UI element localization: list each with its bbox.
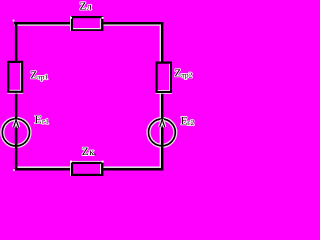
label Eg1 halo [35, 116, 49, 124]
label Eg1 [35, 116, 49, 124]
label Eg2 halo [181, 117, 194, 125]
arrow Eg1 (emf direction up) [14, 120, 19, 128]
label Eg2 [181, 117, 194, 125]
wire halo bottom (light edge above bottom wire) [15, 166, 163, 168]
source Eg2 circle halo [149, 119, 176, 146]
label Ztr2 [175, 69, 192, 79]
wire top [14, 22, 163, 24]
label Ztr1 halo [31, 71, 48, 81]
wire through Eg2 [161, 117, 163, 146]
box halo slivers [7, 16, 172, 176]
impedance Zl (top resistor box) [72, 17, 102, 30]
source Eg2 circle [149, 119, 176, 146]
wire through Eg1 [15, 117, 18, 147]
corner highlight dots [13, 20, 15, 22]
label Zl halo [80, 2, 91, 10]
label Ztr2 halo [175, 69, 192, 79]
wire halo top (light edge below top wire) [14, 24, 163, 26]
wire bottom [15, 168, 164, 171]
wire right [161, 22, 163, 170]
label Zk halo [82, 148, 94, 155]
label Zk period [94, 154, 95, 155]
arrow halo Eg1 [14, 120, 19, 128]
wire left [15, 22, 18, 170]
arrow Eg2 (emf direction up) [160, 120, 165, 128]
impedance Ztr1 (left resistor box) [8, 62, 22, 92]
source Eg1 circle [2, 119, 29, 146]
label Zk [82, 148, 94, 155]
impedance Ztr2 (right resistor box) [157, 63, 171, 92]
label Ztr1 [31, 71, 48, 81]
arrow halo Eg2 [160, 120, 165, 128]
label Zl [80, 2, 91, 10]
impedance Zk (bottom resistor box) [72, 163, 102, 175]
source Eg1 circle halo [2, 119, 29, 146]
wire halo right (light edge left of right wire) [160, 22, 162, 170]
